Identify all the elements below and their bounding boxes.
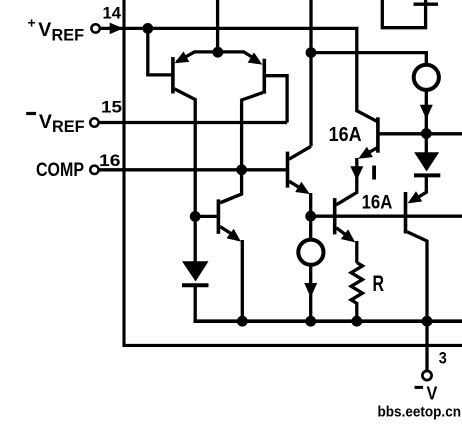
diode D1 (node D to rail) bbox=[194, 216, 197, 261]
wire rail down to pin 3 terminal bbox=[425, 321, 428, 371]
junction dot Q5 emitter on rail bbox=[237, 316, 248, 327]
transistor Q5 (NPN) base bar bbox=[217, 199, 221, 233]
junction dot Q7 collector on rail bbox=[422, 316, 433, 327]
wire -VREF from pin 15 to Q2 base loop bbox=[99, 121, 287, 124]
resistor R zigzag bbox=[351, 263, 362, 322]
wire +VREF rail: pin14 right, down at x=357 into Q4 collector bbox=[100, 28, 377, 121]
input arrow at pin 14 bbox=[110, 23, 124, 34]
current arrow I on Q4 emitter wire bbox=[350, 166, 363, 180]
transistor Q3 (middle NPN) base bar bbox=[286, 152, 290, 188]
Q3 collector wire up to node B line bbox=[289, 146, 311, 159]
junction dot: COMP joins Q2/Q5 collector line bbox=[236, 164, 247, 175]
partial box at top edge (left side) bbox=[382, 0, 425, 28]
svg-text:16A: 16A bbox=[329, 124, 362, 146]
wire from top edge to emitter node of Q1/Q2 pair bbox=[216, 0, 219, 52]
svg-text:15: 15 bbox=[101, 97, 122, 116]
base line from node C to right edge (Q6/Q7 bases) bbox=[311, 215, 462, 218]
label +VREF (pin 14) bbox=[28, 15, 85, 45]
transistor Q7 (right PNP) base bar bbox=[404, 192, 408, 234]
svg-text:14: 14 bbox=[103, 4, 122, 23]
terminal pin 14 bbox=[91, 24, 99, 32]
Q5 emitter wire with arrow down to ground rail bbox=[220, 227, 232, 235]
Q2 emitter wire with arrow into base bar bbox=[218, 52, 259, 61]
capacitor-style crossbar at top right bbox=[414, 3, 439, 6]
terminal pin 16 bbox=[90, 166, 98, 174]
junction dot node C (Q3 emitter, base line, I2) bbox=[305, 211, 316, 222]
Q2 collector wire down to Q5 collector bbox=[221, 93, 263, 203]
Q6 emitter wire with arrow down to resistor R bbox=[336, 228, 347, 236]
label -V (pin 3) bbox=[415, 384, 438, 404]
Q4 emitter wire with arrow, down to current arrow I bbox=[367, 148, 377, 154]
transistor Q6 (NPN) base bar bbox=[333, 198, 337, 234]
wire I1 output down to node E with current arrow bbox=[425, 90, 428, 134]
junction node A on +VREF rail bbox=[142, 23, 153, 34]
svg-text:REF: REF bbox=[52, 117, 85, 136]
Q2 base wire loop to -VREF line bbox=[266, 76, 287, 123]
junction dot node D (Q5 base / diode D1 anode) bbox=[190, 211, 201, 222]
svg-text:V: V bbox=[39, 111, 52, 133]
wire node C down to current source I2 bbox=[309, 216, 312, 240]
wire I2 output down to rail with current arrow bbox=[309, 265, 312, 321]
svg-text:R: R bbox=[373, 271, 385, 296]
svg-text:3: 3 bbox=[439, 349, 447, 368]
transistor Q1 (left PNP) base bar bbox=[171, 57, 175, 93]
ground/common rail wire bbox=[195, 319, 462, 321]
junction dot node E bbox=[421, 128, 432, 139]
junction dot R on rail bbox=[351, 316, 362, 327]
svg-text:+: + bbox=[28, 15, 36, 31]
Q7 emitter wire from D2 with arrow into base bar bbox=[419, 175, 426, 196]
svg-text:V: V bbox=[427, 384, 438, 404]
svg-text:REF: REF bbox=[52, 26, 85, 45]
current source I2 circle bbox=[298, 240, 323, 265]
terminal pin 15 bbox=[90, 118, 98, 126]
svg-text:COMP: COMP bbox=[36, 160, 84, 181]
transistor Q2 (right PNP) base bar bbox=[262, 59, 266, 94]
Q1 emitter wire with arrow into base bar bbox=[177, 52, 218, 62]
Q7 collector wire down to rail bbox=[407, 232, 427, 321]
wire node B to current source I1 bbox=[311, 53, 426, 64]
svg-text:16: 16 bbox=[99, 151, 121, 170]
wire COMP from pin 16 to Q3 base bbox=[99, 168, 286, 171]
svg-text:16A: 16A bbox=[362, 192, 393, 213]
junction dot: common emitter node of Q1/Q2 bbox=[212, 47, 223, 58]
label -VREF (pin 15) bbox=[26, 111, 84, 136]
wire node D to Q5 base bbox=[195, 215, 217, 218]
IC package boundary outline bbox=[124, 0, 462, 345]
Q5 collector wire up to COMP junction bbox=[220, 194, 242, 203]
wire node E to right image edge and Q4 base bbox=[380, 132, 462, 135]
svg-text:V: V bbox=[38, 19, 51, 41]
svg-text:bbs.eetop.cn: bbs.eetop.cn bbox=[378, 405, 462, 421]
label I (current) bbox=[372, 166, 376, 180]
current source I1 circle bbox=[414, 65, 439, 90]
Q1 collector wire down to node D bbox=[174, 89, 195, 216]
diode D2 (node E down to Q7 emitter) bbox=[425, 134, 428, 153]
terminal pin 3 bbox=[422, 371, 431, 380]
junction dot I2 on rail bbox=[305, 316, 316, 327]
wire from top edge down to node B (collector line of Q3) bbox=[309, 0, 312, 146]
Q3 emitter wire with arrow down to node C bbox=[289, 181, 302, 189]
junction dot node B (feeds current source I1) bbox=[306, 47, 317, 58]
wire node A down to Q1 base bbox=[148, 28, 172, 75]
transistor Q4 (16A NPN) base bar bbox=[376, 117, 380, 152]
